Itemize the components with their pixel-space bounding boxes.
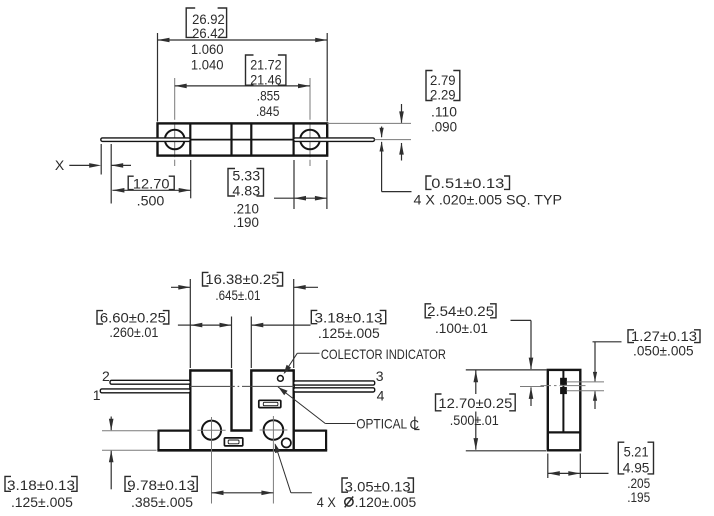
svg-text:21.46: 21.46 [250,71,282,87]
side view top extension line [466,369,547,371]
svg-text:4 X .020±.005 SQ. TYP: 4 X .020±.005 SQ. TYP [414,192,563,208]
svg-text:4 X: 4 X [317,494,337,510]
svg-text:X: X [55,157,65,173]
svg-text:6.60±0.25: 6.60±0.25 [100,309,166,325]
svg-text:.110: .110 [431,103,457,119]
svg-text:.125±.005: .125±.005 [11,494,73,510]
svg-text:.190: .190 [233,214,259,230]
top view lead left [101,138,191,142]
svg-text:.125±.005: .125±.005 [318,325,380,341]
svg-text:.260±.01: .260±.01 [109,324,158,340]
front view: extension lines for 16.38 width [189,279,191,368]
svg-text:4: 4 [377,387,385,403]
front view lead 4 (lower right) [294,388,375,392]
dimension 1.27/.050 arrows [594,342,596,382]
top view: hole centerline right [309,78,311,120]
dimension 1.27/.050 lead pitch extension lines [567,381,605,383]
svg-text:.855: .855 [257,88,280,104]
top view: hole centerline left (extension for hole-span dim) [174,78,176,120]
dimension 9.78/.385 hole span dim line [212,492,274,494]
front view flange [159,430,191,432]
svg-text:12.70: 12.70 [133,176,170,192]
dimension 21.72/.855 hole span dim line [175,85,310,87]
X dimension arrows [69,164,89,166]
dim text [21.72 21.46] .855 .845 [246,55,254,85]
svg-text:.845: .845 [256,103,279,119]
mounting hole right (front) [264,420,284,440]
svg-text:0.51±0.13: 0.51±0.13 [431,175,504,191]
top view: extension line left (body left edge) [157,33,159,122]
svg-text:5.33: 5.33 [232,168,260,184]
dim text [2.79 2.29] .110 .090 [426,71,433,101]
dim text [3.18±0.13] .125±.005 (slot) [311,310,317,323]
svg-text:.050±.005: .050±.005 [633,342,694,358]
front view: extension lines for slot width [231,317,233,369]
svg-text:1.040: 1.040 [191,56,224,72]
leader for 4X hole diameter [275,444,291,492]
svg-text:2.54±0.25: 2.54±0.25 [427,303,494,319]
svg-text:.090: .090 [431,118,457,134]
leader elbow to 4X note [382,191,412,193]
svg-text:.645±.01: .645±.01 [215,287,260,303]
dimension 2.54/.100 leader and arrows [511,319,532,321]
svg-text:5.21: 5.21 [624,443,649,459]
dim text [12.70] .500 [128,176,134,189]
optical centerline leader [278,387,325,424]
dimension 12.70/.500 dim line [112,189,190,191]
svg-text:3.05±0.13: 3.05±0.13 [345,478,411,494]
svg-text:COLECTOR INDICATOR: COLECTOR INDICATOR [321,346,446,362]
svg-text:3.18±0.13: 3.18±0.13 [315,309,383,325]
svg-text:.120±.005: .120±.005 [355,494,417,510]
collector indicator dot [278,376,284,382]
side view lead cross-sections [561,378,567,384]
left hole crosshair [197,429,225,431]
mounting hole left (front) [202,421,221,440]
side view flange line [548,431,581,433]
svg-text:4.83: 4.83 [232,183,260,199]
svg-text:2.29: 2.29 [430,86,456,102]
dim text [3.05±0.13] 4 X dia .120±.005 [342,478,348,492]
dimension 3.18 slot width dim line [251,324,310,326]
side view lead (edge-on) [562,371,564,433]
dimension 5.33/.210 dim line [274,197,294,199]
extension line lead center, right side [375,139,412,141]
side view body outline [548,370,581,450]
dim text [26.92 26.42] 1.060 1.040 [186,8,195,37]
dimension 0.51 lead thickness arrows [381,127,383,138]
X dim extension lines (lead tips) [100,144,102,175]
svg-text:1: 1 [93,387,101,403]
collector indicator leader [285,353,298,372]
svg-text:26.42: 26.42 [192,25,225,41]
dim text [9.78±0.13] .385±.005 [125,476,131,491]
dimension 26.92/1.060 overall length dim line [158,39,328,41]
dim text [2.54±0.25] .100±.01 [425,304,431,318]
dim text [1.27±0.13] .050±.005 [628,330,634,343]
side view optical centerline [541,385,552,387]
svg-text:4.95: 4.95 [623,460,650,476]
dimension 5.21/.205 width dim line [548,472,581,474]
lower rectangular window mark [224,438,242,446]
front view lead 2 (upper left) [110,380,190,384]
top view inner division lines [189,123,191,155]
dimension 12.70/.500 height dim line [475,371,477,395]
svg-text:.385±.005: .385±.005 [131,494,193,510]
dim text [5.21 4.95] .205 .195 [618,442,624,474]
svg-text:.500: .500 [137,193,165,209]
top view mounting hole right [300,130,320,150]
svg-text:1.060: 1.060 [191,41,224,57]
dim text [12.70±0.25] .500±.01 [436,394,442,411]
dim text [16.38±0.25] .645±.01 [203,272,209,286]
dimension 6.60/.260 dim line with leader [178,324,190,326]
dimension 16.38/.645 dim line [171,286,190,288]
small indicator circle near right hole [282,438,291,447]
svg-text:OPTICAL: OPTICAL [356,415,407,431]
top view lead right [294,138,375,142]
svg-text:2: 2 [102,368,110,384]
front view body outline (U shape) [190,371,293,431]
svg-text:.195: .195 [627,489,650,505]
top view mid parting line [190,139,293,141]
dimension 2.79/.110 arrows [401,104,403,123]
optical centerline through towers [190,385,231,387]
svg-text:21.72: 21.72 [250,56,282,72]
dimension 3.18/.125 flange height arrows [110,417,112,431]
front view lead 3 (upper right) [294,381,375,385]
side view width extension lines [547,454,549,479]
dim text [5.33 4.83] .210 .190 [228,169,235,197]
top view body outline [158,123,328,155]
dim text [0.51±0.13] 4 X .020±.005 SQ. TYP [426,176,432,189]
svg-text:.500±.01: .500±.01 [450,412,499,428]
flange height extension lines [102,430,157,432]
extension line body top, right side [327,122,411,124]
side view bottom extension line [466,450,546,452]
top view: extension line right (body right edge) [326,33,328,122]
svg-text:3: 3 [376,368,384,384]
svg-text:3.18±0.13: 3.18±0.13 [7,477,75,493]
svg-text:12.70±0.25: 12.70±0.25 [438,395,512,411]
dimension 5.33/.210 ear width extension lines [293,160,295,209]
svg-text:.100±.01: .100±.01 [435,320,488,336]
dim text [6.60±0.25] .260±.01 [97,311,103,324]
top view mounting hole left [165,130,185,150]
dim text [3.18±0.13] .125±.005 (flange) [5,476,11,491]
front view lead 1 (lower left) [100,389,190,393]
svg-text:16.38±0.25: 16.38±0.25 [205,271,279,287]
upper rectangular window mark [259,400,281,407]
right hole crosshair [260,429,288,431]
svg-text:9.78±0.13: 9.78±0.13 [127,477,195,493]
